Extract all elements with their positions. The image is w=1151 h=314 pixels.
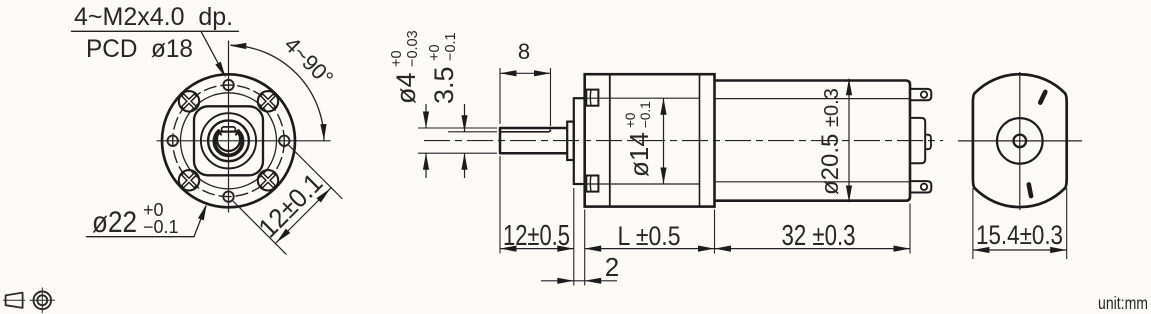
shaft top tab: [222, 127, 236, 132]
internal line left: [609, 74, 611, 206]
projection symbol cone: [6, 293, 23, 308]
shaft extension lines left: [418, 127, 497, 129]
svg-text:+0: +0: [389, 50, 405, 67]
motor rear outline: [973, 74, 1067, 207]
outer circle O22 flange: [162, 74, 295, 207]
svg-text:8: 8: [518, 39, 530, 64]
dim 15.4 line: [973, 249, 1067, 251]
shaft outline: [500, 128, 567, 153]
screw SE: [258, 170, 278, 190]
svg-text:−0.1: −0.1: [638, 101, 653, 128]
label shelf line: [72, 30, 239, 32]
screw pocket top: [586, 90, 598, 106]
screw NE: [258, 91, 278, 111]
svg-text:ø22: ø22: [92, 206, 137, 239]
projection symbol cone centerline: [3, 299, 25, 301]
dim 12+-0.1 dimension line: [275, 188, 331, 244]
front plate O14: [574, 98, 585, 184]
motor flat line top: [715, 98, 911, 100]
dim 3.5 arrow bottom: [464, 153, 466, 178]
gearbox case: [585, 74, 715, 206]
screw SW: [179, 170, 199, 190]
gearbox boss rounded square: [194, 106, 263, 175]
bearing nub: [925, 135, 931, 150]
o22 shelf line: [87, 236, 195, 238]
bottom ext line motor right: [909, 204, 911, 254]
bottom ext line case left: [584, 210, 586, 286]
horizontal centerline: [157, 140, 330, 142]
hole N: [223, 80, 233, 90]
projection symbol circles: [34, 292, 52, 310]
bottom ext line shaft tip: [499, 156, 501, 254]
dim 8 ext lines: [499, 68, 501, 124]
main centerline dash-dot: [424, 140, 943, 142]
dim 12+-0.1 extension line from hole S: [233, 201, 286, 254]
dim 3.5 arrow top: [464, 104, 466, 132]
terminal bottom hole: [921, 184, 927, 190]
bearing circle: [997, 118, 1043, 164]
e-clip retaining ring: [214, 131, 242, 155]
dim o20.5 arrow line: [848, 79, 850, 203]
PCD 18 dashed circle: [173, 85, 285, 197]
projection symbol crosshair: [30, 299, 56, 301]
svg-text:2: 2: [605, 252, 619, 282]
svg-text:L ±0.5: L ±0.5: [618, 221, 681, 251]
svg-text:15.4±0.3: 15.4±0.3: [976, 220, 1063, 250]
svg-text:3.5: 3.5: [429, 66, 459, 104]
vertical centerline: [228, 41, 230, 212]
terminal bottom: [910, 181, 931, 192]
leader to hole N: [201, 31, 222, 70]
bottom ext line plate left: [573, 188, 575, 286]
circle r20.4: [208, 120, 249, 161]
screw pocket bottom: [586, 176, 598, 192]
internal line right (end cap): [699, 74, 701, 206]
svg-text:−0.1: −0.1: [443, 32, 459, 61]
dim 8 line w/ arrows: [500, 72, 551, 74]
svg-text:ø14: ø14: [624, 132, 654, 177]
inner flange circle: [181, 93, 277, 189]
dim o4 text rotated: [389, 30, 421, 104]
svg-text:ø4: ø4: [391, 72, 421, 104]
svg-text:ø20.5 ±0.3: ø20.5 ±0.3: [817, 88, 844, 195]
vent slot top: [1037, 89, 1048, 106]
hole S: [223, 191, 233, 201]
svg-text:unit:mm: unit:mm: [1098, 293, 1148, 313]
svg-text:+0: +0: [427, 44, 443, 61]
washer boss: [567, 122, 574, 160]
terminal top hole: [921, 91, 927, 97]
dim o4 arrow top: [425, 104, 427, 128]
svg-text:−0.1: −0.1: [143, 217, 179, 237]
gearbox bore line bottom: [585, 183, 700, 185]
dim o4 arrow bottom: [425, 153, 427, 178]
hole E: [279, 136, 289, 146]
shaft circle: [1014, 135, 1027, 148]
dim 15.4 ext lines: [972, 188, 974, 259]
svg-text:32 ±0.3: 32 ±0.3: [782, 220, 856, 252]
screw NW: [179, 91, 199, 111]
rear boss: [910, 118, 925, 163]
output shaft D-circle: [217, 132, 240, 151]
shaft flat line: [500, 130, 551, 132]
vent slot bottom: [1026, 182, 1034, 199]
circle r27.6: [201, 113, 256, 168]
e-clip tip hooks: [218, 131, 238, 135]
dim 12+-0.1 extension line from hole E: [289, 145, 342, 198]
motor can outline: [715, 81, 911, 201]
svg-text:4~M2x4.0 dp.: 4~M2x4.0 dp.: [74, 3, 233, 31]
hole W: [168, 136, 178, 146]
terminal top: [910, 89, 931, 100]
angle arc 4~90: [231, 45, 324, 141]
dim 3.5 text rotated: [427, 32, 459, 104]
horizontal centerline: [958, 140, 1082, 142]
svg-text:PCD ø18: PCD ø18: [86, 35, 193, 63]
dim o14 arrow line: [663, 98, 665, 184]
gearbox bore line top: [585, 97, 700, 99]
motor flat line bottom: [715, 181, 911, 183]
o22 leader: [194, 207, 206, 237]
dim o14 text rotated: [623, 101, 654, 177]
bottom ext line case right: [714, 210, 716, 254]
dim o20.5 text rotated: [817, 88, 844, 195]
svg-text:−0.03: −0.03: [405, 30, 421, 67]
svg-text:+0: +0: [623, 113, 638, 128]
vertical centerline: [1019, 72, 1021, 210]
